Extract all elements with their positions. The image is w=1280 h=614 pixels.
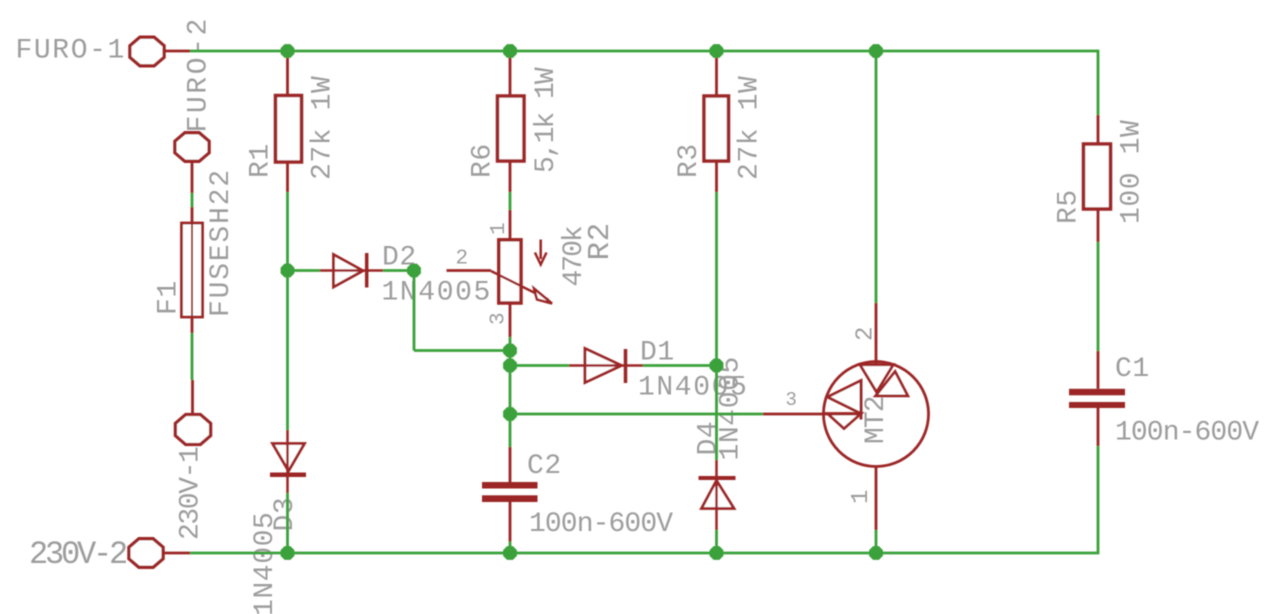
wire fuse top gap	[191, 193, 194, 207]
pin R6 bottom	[509, 161, 512, 192]
svg-text:27k 1W: 27k 1W	[735, 76, 766, 180]
svg-text:R3: R3	[674, 143, 705, 178]
pin R1 bottom	[286, 161, 289, 192]
diode D2	[320, 253, 383, 288]
svg-text:1: 1	[488, 222, 511, 235]
pad FURO-2	[175, 133, 209, 162]
pad FURO-1	[130, 37, 164, 66]
wire D1 row left	[510, 364, 569, 367]
wire right column between R5 and C1	[1097, 242, 1100, 351]
pin C2 top	[509, 447, 512, 482]
svg-text:C1: C1	[1115, 354, 1150, 385]
potentiometer R2 adjust arrow	[535, 240, 547, 265]
junction D2 right	[407, 264, 421, 278]
diode D1	[569, 349, 643, 384]
svg-text:1N4005: 1N4005	[716, 356, 747, 460]
wire jog horizontal	[414, 349, 510, 352]
wire below D4	[715, 530, 718, 553]
wire left column below D3	[286, 493, 289, 553]
junction D1 left	[503, 359, 517, 373]
pin C2 bottom	[509, 502, 512, 542]
svg-text:FURO-1: FURO-1	[16, 36, 126, 67]
junction bottom bus at D4	[710, 546, 724, 560]
svg-text:1N4005: 1N4005	[250, 512, 281, 614]
resistor R1	[276, 96, 302, 163]
svg-text:R6: R6	[468, 143, 499, 178]
svg-text:230V-1: 230V-1	[176, 447, 207, 540]
wire D1 row right	[643, 364, 717, 367]
svg-text:2: 2	[456, 248, 469, 271]
diode D4	[699, 460, 736, 530]
fuse F1	[182, 223, 203, 317]
pin R5 top	[1097, 115, 1100, 145]
pin stub FURO-2	[191, 162, 194, 193]
pin R2 pin3	[509, 303, 512, 337]
wire gap between R6 and R2	[509, 192, 512, 210]
svg-text:MT2: MT2	[861, 396, 892, 444]
wire left column R1 to D3	[286, 192, 289, 430]
pin triac MT2 top	[875, 303, 878, 365]
pin R5 bottom	[1097, 209, 1100, 243]
junction D1 right	[710, 359, 724, 373]
svg-text:R1: R1	[246, 143, 277, 178]
pin R6 top	[509, 57, 512, 96]
wire jog vertical	[413, 271, 416, 351]
wire fuse bottom gap	[191, 333, 194, 380]
wire top bus net	[190, 51, 1098, 115]
svg-text:100n-600V: 100n-600V	[529, 509, 673, 540]
svg-text:5,1k 1W: 5,1k 1W	[531, 67, 562, 173]
wire R2 pin3 to C2	[509, 337, 512, 447]
junction D2 tap	[281, 264, 295, 278]
junction bottom bus at D3	[281, 546, 295, 560]
junction gate row left	[503, 407, 517, 421]
svg-text:1N4005: 1N4005	[382, 278, 492, 309]
svg-text:FURO-2: FURO-2	[184, 16, 215, 132]
pad 230V-1	[175, 415, 210, 445]
junction top bus at R1	[281, 44, 295, 58]
svg-text:230V-2: 230V-2	[29, 536, 126, 573]
junction R2 pin3 jog	[503, 344, 517, 358]
svg-text:C2: C2	[527, 451, 562, 482]
triac T1	[763, 362, 929, 467]
pin F1 bottom	[191, 317, 194, 333]
wire gate row	[510, 413, 763, 416]
capacitor C2	[482, 482, 538, 502]
pin R2 pin2	[447, 269, 492, 272]
svg-text:D1: D1	[640, 338, 675, 369]
svg-text:100 1W: 100 1W	[1117, 120, 1148, 224]
wire R3 column	[715, 192, 718, 460]
resistor R6	[498, 96, 525, 161]
capacitor C1	[1069, 389, 1125, 408]
wire bottom bus net	[190, 446, 1098, 553]
junction top bus at R6	[503, 44, 517, 58]
pin R3 bottom	[715, 161, 718, 192]
svg-text:27k 1W: 27k 1W	[308, 76, 339, 180]
wire D2 row right	[383, 269, 414, 272]
pin R2 pin1	[509, 210, 512, 240]
pin R1 top	[286, 57, 289, 96]
junction bottom bus at C2	[503, 546, 517, 560]
junction bottom bus at triac	[869, 546, 883, 560]
wire triac bottom	[875, 530, 878, 553]
pin triac MT1 bottom	[875, 467, 878, 531]
pin stub 230V-1	[191, 380, 194, 414]
pin stub 230V-2	[164, 552, 191, 555]
svg-text:R5: R5	[1054, 189, 1085, 224]
svg-text:100n-600V: 100n-600V	[1115, 418, 1259, 449]
pin stub FURO-1	[165, 50, 191, 53]
pin C1 bottom	[1097, 408, 1100, 446]
wire C2 bottom	[509, 542, 512, 554]
junction top bus at triac	[869, 44, 883, 58]
wire triac top	[875, 51, 878, 303]
junction top bus at R3	[710, 44, 724, 58]
pin C1 top	[1097, 351, 1100, 389]
svg-text:1: 1	[848, 489, 875, 504]
svg-text:3: 3	[488, 312, 511, 325]
svg-text:3: 3	[786, 389, 798, 411]
potentiometer R2 body	[499, 240, 521, 303]
svg-text:FUSESH22: FUSESH22	[206, 168, 237, 317]
pad 230V-2	[129, 539, 163, 568]
pin F1 top	[191, 207, 194, 223]
svg-text:F1: F1	[154, 280, 185, 315]
svg-text:470k: 470k	[559, 226, 590, 286]
wire D2 row left	[288, 269, 321, 272]
resistor R5	[1084, 144, 1111, 209]
resistor R3	[704, 96, 729, 161]
pin R3 top	[715, 57, 718, 96]
diode D3	[270, 430, 306, 493]
potentiometer R2 wiper arrow	[491, 271, 552, 304]
